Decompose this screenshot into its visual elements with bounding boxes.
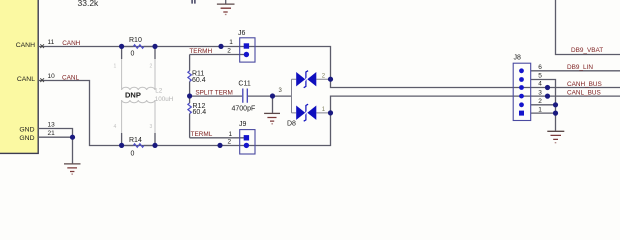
svg-text:2: 2 xyxy=(228,139,232,146)
svg-text:CANL: CANL xyxy=(17,76,35,83)
svg-text:1: 1 xyxy=(322,107,326,113)
svg-text:1: 1 xyxy=(114,64,117,70)
svg-text:CANH_BUS: CANH_BUS xyxy=(567,81,602,88)
svg-text:TERML: TERML xyxy=(191,131,213,138)
svg-text:CANH: CANH xyxy=(16,42,35,49)
svg-text:4: 4 xyxy=(538,81,542,88)
svg-text:R14: R14 xyxy=(129,137,142,144)
svg-text:DNP: DNP xyxy=(125,91,141,100)
svg-text:GND: GND xyxy=(19,135,34,142)
svg-text:3: 3 xyxy=(538,89,542,96)
svg-text:4: 4 xyxy=(114,124,117,130)
svg-text:10: 10 xyxy=(48,73,56,80)
svg-text:1: 1 xyxy=(229,131,233,138)
svg-text:6: 6 xyxy=(538,64,542,71)
svg-text:3: 3 xyxy=(150,124,153,130)
svg-text:60.4: 60.4 xyxy=(192,77,206,84)
svg-text:J6: J6 xyxy=(238,30,246,37)
svg-text:SPLIT TERM: SPLIT TERM xyxy=(195,90,232,97)
svg-text:13: 13 xyxy=(48,122,56,129)
svg-text:2: 2 xyxy=(538,98,542,105)
svg-text:DB9_LIN: DB9_LIN xyxy=(567,64,593,71)
svg-text:C11: C11 xyxy=(238,80,250,87)
svg-text:5: 5 xyxy=(538,73,542,80)
svg-text:J9: J9 xyxy=(239,121,247,128)
svg-text:DB9_VBAT: DB9_VBAT xyxy=(571,47,603,54)
svg-text:0: 0 xyxy=(131,51,135,58)
svg-text:2: 2 xyxy=(150,64,153,70)
svg-text:TERMH: TERMH xyxy=(189,48,212,55)
svg-text:L2: L2 xyxy=(155,87,163,94)
svg-text:CANL: CANL xyxy=(62,74,79,81)
svg-text:R10: R10 xyxy=(129,37,142,44)
svg-text:CANH: CANH xyxy=(62,40,80,47)
svg-text:0: 0 xyxy=(131,151,135,158)
svg-text:CANL_BUS: CANL_BUS xyxy=(567,89,601,96)
svg-text:100uH: 100uH xyxy=(155,96,174,103)
svg-text:GND: GND xyxy=(19,126,34,133)
svg-text:3: 3 xyxy=(279,88,283,94)
svg-text:1: 1 xyxy=(538,106,542,113)
svg-text:11: 11 xyxy=(48,39,55,46)
svg-text:60.4: 60.4 xyxy=(193,109,207,116)
svg-text:33.2k: 33.2k xyxy=(78,0,100,8)
svg-text:2: 2 xyxy=(322,73,326,79)
svg-text:D8: D8 xyxy=(287,120,296,127)
svg-text:2: 2 xyxy=(227,48,231,55)
svg-text:4700pF: 4700pF xyxy=(232,106,256,113)
svg-text:21: 21 xyxy=(48,130,56,137)
svg-text:1: 1 xyxy=(229,39,233,46)
svg-text:J8: J8 xyxy=(514,55,522,62)
